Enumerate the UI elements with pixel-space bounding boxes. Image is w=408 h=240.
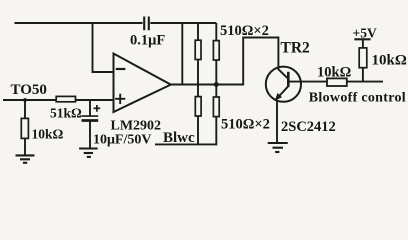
resistor 510 bottom-left box <box>195 97 201 116</box>
+5V supply terminal bar <box>354 38 370 40</box>
wire top 510 pair: left column upper <box>197 23 199 40</box>
op-amp plus sign <box>115 94 125 104</box>
wire top rail right of C <box>150 22 216 24</box>
plus polarity mark of 10uF cap <box>94 105 101 112</box>
resistor 510 top-left box <box>195 40 201 59</box>
svg-text:2SC2412: 2SC2412 <box>281 119 336 135</box>
wire electrolytic cap lead upper <box>89 100 91 116</box>
capacitor 10uF/50V plates <box>82 115 99 117</box>
node dot at 510 junction <box>214 82 219 87</box>
wire left column lower <box>197 116 199 144</box>
wire input line from TO50 <box>3 99 114 101</box>
transistor emitter arrowhead <box>275 93 282 101</box>
resistor 510 bottom-right box <box>213 97 219 117</box>
wire base route up-over to TR2 <box>243 38 278 86</box>
svg-text:510Ω×2: 510Ω×2 <box>221 117 270 133</box>
svg-text:10kΩ: 10kΩ <box>317 64 351 80</box>
wire electrolytic cap lead lower <box>89 122 91 149</box>
wire right column lower <box>215 117 217 145</box>
wire op-amp output node <box>171 84 243 86</box>
capacitor 0.1uF plates <box>144 17 149 31</box>
wire resistor to collector rail <box>362 68 364 82</box>
svg-text:10kΩ: 10kΩ <box>32 127 64 142</box>
svg-text:10μF/50V: 10μF/50V <box>93 133 152 148</box>
resistor 10k vertical box <box>359 48 367 68</box>
wire 10k branch upper <box>24 100 26 118</box>
wire emitter down <box>276 101 278 143</box>
wire Blwc rail <box>155 143 217 145</box>
ground under cap <box>79 149 98 157</box>
svg-text:Blowoff control: Blowoff control <box>309 91 406 106</box>
svg-text:510Ω×2: 510Ω×2 <box>220 23 269 39</box>
transistor collector lead <box>288 81 383 83</box>
wire inverting input drop from top rail <box>93 22 114 72</box>
wire right column mid <box>215 60 217 97</box>
label 0.1uF <box>0 0 1 1</box>
transistor base diagonal <box>278 69 288 79</box>
wire 10k branch lower <box>24 138 26 155</box>
wire left column mid <box>197 60 199 97</box>
resistor 51k box <box>56 96 75 101</box>
resistor 10k horizontal box <box>327 78 347 86</box>
transistor Q TR2 circle <box>266 67 301 102</box>
transistor emitter diagonal <box>277 86 288 98</box>
wire top 510 pair: right column upper <box>215 23 217 41</box>
node dot at input divider <box>23 98 27 102</box>
resistor 10k left box <box>21 118 28 138</box>
svg-text:10kΩ: 10kΩ <box>372 53 407 69</box>
op-amp U1 LM2902 triangle <box>114 54 171 113</box>
wire +5V to resistor <box>362 39 364 48</box>
svg-text:51kΩ: 51kΩ <box>50 106 82 121</box>
svg-text:0.1μF: 0.1μF <box>130 33 165 49</box>
svg-text:Blwc: Blwc <box>163 130 195 146</box>
svg-text:+5V: +5V <box>353 25 377 40</box>
svg-text:TR2: TR2 <box>281 40 311 57</box>
ground under TR2 <box>268 143 288 152</box>
op-amp minus sign <box>116 68 126 70</box>
transistor base bar <box>287 72 290 87</box>
svg-text:LM2902: LM2902 <box>111 119 162 134</box>
resistor 510 top-right box <box>213 41 219 60</box>
wire top rail left of C (feedback rail) <box>15 22 143 24</box>
ground left <box>16 155 35 162</box>
svg-text:TO50: TO50 <box>11 82 47 98</box>
wire feedback vertical <box>181 23 183 85</box>
